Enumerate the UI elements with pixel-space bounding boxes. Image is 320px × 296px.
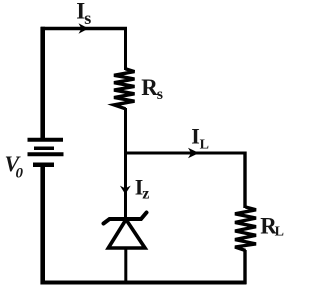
svg-text:s: s: [84, 8, 91, 28]
current arrow IZ: [120, 186, 131, 195]
battery V0 plate short upper: [34, 146, 54, 150]
wire middle lower (zener to bottom): [124, 247, 127, 284]
resistor RL: [235, 207, 256, 251]
svg-text:R: R: [141, 75, 158, 100]
battery V0 plate short bottom: [33, 162, 54, 167]
wire bottom: [41, 281, 247, 285]
wire left lower: [40, 166, 45, 285]
wire right lower (RL to bottom): [243, 250, 246, 284]
wire middle (RS to zener): [124, 108, 127, 218]
current arrow IS: [79, 23, 89, 33]
zener diode DZ cathode bar: [104, 213, 147, 224]
wire left upper: [40, 27, 45, 140]
svg-text:L: L: [275, 225, 284, 240]
svg-text:L: L: [200, 138, 209, 153]
zener diode DZ triangle anode: [108, 220, 145, 249]
svg-text:0: 0: [16, 166, 24, 182]
resistor RS: [114, 69, 135, 109]
wire middle upper (top wire to RS): [124, 27, 127, 70]
svg-text:z: z: [142, 186, 149, 203]
battery V0 plate long top: [28, 138, 64, 142]
current arrow IL: [188, 148, 199, 158]
wire right upper (IL corner to RL): [243, 152, 246, 209]
wire top (battery + to RS): [41, 27, 127, 30]
svg-text:I: I: [191, 123, 200, 148]
wire IL horizontal (node to RL): [124, 152, 247, 155]
battery V0 plate long lower: [28, 152, 64, 156]
svg-text:s: s: [157, 86, 163, 103]
